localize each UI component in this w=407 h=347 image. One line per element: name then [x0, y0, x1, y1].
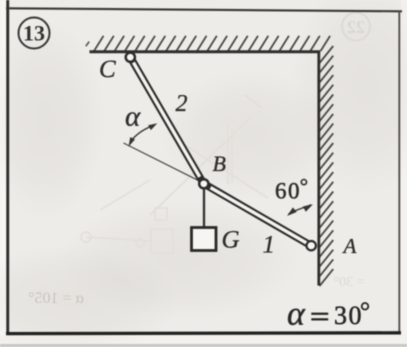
- svg-text:α = 105°: α = 105°: [28, 290, 84, 307]
- svg-text:1: 1: [263, 232, 276, 259]
- svg-text:A: A: [342, 234, 357, 258]
- svg-text:30: 30: [334, 301, 363, 330]
- svg-text:C: C: [99, 56, 116, 83]
- svg-text:G: G: [222, 226, 240, 253]
- svg-text:2: 2: [176, 91, 188, 117]
- svg-text:22: 22: [347, 17, 365, 37]
- svg-text:B: B: [213, 151, 226, 176]
- svg-text:= 30°: = 30°: [334, 275, 365, 290]
- svg-text:α: α: [125, 101, 141, 133]
- svg-text:13: 13: [23, 21, 45, 46]
- svg-text:α: α: [287, 296, 306, 333]
- svg-text:60: 60: [275, 179, 301, 204]
